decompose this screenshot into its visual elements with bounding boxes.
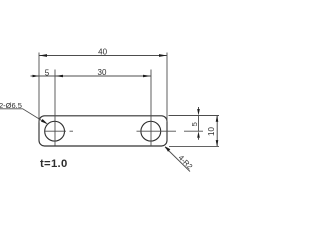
hole left circle xyxy=(45,121,65,141)
dimension line 5 / 30 xyxy=(31,75,152,77)
svg-text:5: 5 xyxy=(45,68,50,77)
right dim 10 top arrow xyxy=(216,116,219,122)
right dim 5 bottom outside arrow xyxy=(197,131,200,138)
svg-text:30: 30 xyxy=(98,68,107,77)
leader line 4-R2 xyxy=(165,147,190,172)
extension line, plate right edge xyxy=(166,53,168,123)
centerline horizontal, left hole xyxy=(45,130,73,132)
inside arrow at x=55 (30 dim left / 5 dim right) xyxy=(55,75,63,78)
svg-text:40: 40 xyxy=(98,48,107,57)
hole right circle xyxy=(141,121,161,141)
inside arrow at x=151 (30 dim right) xyxy=(143,75,151,78)
svg-text:10: 10 xyxy=(207,127,216,136)
leader arrow 2-d6.5 xyxy=(41,119,48,124)
right dim 10 bottom arrow xyxy=(216,140,219,146)
arrow left of 40 dim xyxy=(39,54,47,57)
svg-text:5: 5 xyxy=(190,122,199,126)
centerline vertical, right hole + extension line to 30 dim xyxy=(150,70,152,147)
right dim 5: line xyxy=(198,116,200,132)
leader line 2-d6.5 xyxy=(0,109,47,124)
centerline vertical, left hole + extension line to 5/30 dims xyxy=(54,70,56,146)
plate outline (rounded rectangle 40x10 R2) xyxy=(39,116,167,146)
extension line, top edge to right dims xyxy=(169,115,220,117)
leader arrow 4-R2 xyxy=(165,146,170,151)
centerline horizontal, right hole + extension to right 5 dim xyxy=(137,130,204,132)
extension line, plate left edge xyxy=(38,53,40,123)
svg-text:t=1.0: t=1.0 xyxy=(40,158,68,170)
outside arrow at x=39 (5 dim) xyxy=(33,75,40,78)
dimension line 40 xyxy=(39,55,167,57)
extension line, bottom edge to right dims xyxy=(169,145,219,147)
right dim 5 top outside arrow xyxy=(197,109,200,116)
arrow right of 40 dim xyxy=(159,54,167,57)
right dim 10: line xyxy=(216,116,218,147)
